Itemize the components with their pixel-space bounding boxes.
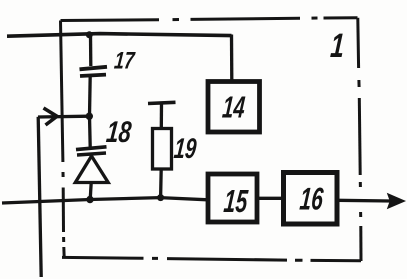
block 15 — [208, 174, 257, 222]
svg-text:1: 1 — [329, 27, 345, 65]
wire bottom main — [2, 198, 208, 203]
capacitor C17 — [80, 35, 108, 116]
node junction arrow / VD18 — [86, 113, 93, 120]
svg-text:14: 14 — [221, 92, 246, 125]
svg-text:16: 16 — [298, 181, 325, 216]
node junction top wire / C17 — [86, 31, 93, 38]
wire down to block 14 — [230, 35, 234, 82]
resistor R19 — [153, 129, 172, 170]
block 14 — [208, 82, 260, 133]
wire output with arrow — [337, 195, 404, 208]
wire block15 to block16 — [257, 197, 284, 200]
block 16 — [284, 173, 338, 225]
svg-text:18: 18 — [105, 115, 133, 149]
resistor R19 terminal bar — [148, 102, 176, 128]
node junction R19 / bottom wire — [157, 194, 164, 201]
node junction VD18 / bottom wire — [86, 196, 93, 203]
enclosure dash-dot border 1 — [61, 18, 362, 261]
wire R19 to bottom — [159, 169, 163, 198]
varicap diode VD18 — [75, 116, 108, 200]
svg-text:15: 15 — [222, 183, 250, 219]
wire input with arrow — [38, 108, 89, 125]
svg-text:19: 19 — [173, 134, 198, 165]
wire vertical down-left to bottom edge — [38, 117, 41, 277]
wire top input — [7, 34, 232, 37]
svg-text:17: 17 — [113, 48, 136, 74]
